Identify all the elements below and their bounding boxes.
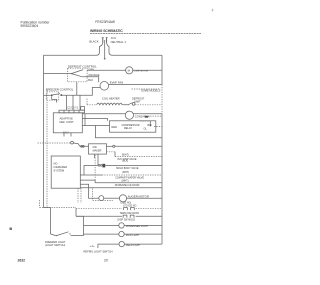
- NO ICEMAKER box: [51, 156, 80, 188]
- svg-text:WIRING SCHEMATIC: WIRING SCHEMATIC: [90, 29, 123, 33]
- svg-text:ICEMAKER: ICEMAKER: [54, 165, 68, 169]
- svg-text:(WHT): (WHT): [122, 171, 129, 174]
- left bus lower jog: [44, 208, 51, 234]
- svg-text:NEUTRAL 1: NEUTRAL 1: [111, 40, 127, 44]
- svg-text:REFRIG LIGHT SWITCH: REFRIG LIGHT SWITCH: [84, 249, 113, 253]
- wire neutral to right bus: [107, 43, 162, 56]
- wire plug ground stem: [104, 40, 106, 58]
- svg-text:FREEZER CONTROL: FREEZER CONTROL: [46, 87, 74, 91]
- ADC right pins: [82, 113, 85, 115]
- svg-text:EVAP. FAN: EVAP. FAN: [110, 81, 123, 85]
- dashed icemaker enclosure left edge: [46, 90, 48, 208]
- wire dispenser rung 2: [76, 215, 122, 217]
- svg-text:LIMIT: LIMIT: [134, 99, 141, 103]
- defrost control box (dashed): [68, 68, 88, 82]
- wire defrost to ADC: [72, 95, 74, 110]
- wire evap link to ADC: [79, 95, 81, 110]
- water valve connector: [98, 165, 100, 167]
- right bus: [161, 55, 163, 84]
- freezer light: [119, 231, 124, 236]
- left bus: [43, 55, 45, 207]
- icemaker box bottom pins: [94, 154, 96, 158]
- svg-text:20: 20: [104, 258, 108, 262]
- wire freezer control to ADC: [66, 95, 68, 110]
- wire dashed dispenser rung: [76, 207, 122, 209]
- svg-text:AUGER MOTOR: AUGER MOTOR: [128, 194, 149, 198]
- svg-text:LTD ICE NO: LTD ICE NO: [123, 204, 136, 207]
- svg-text:COIL HEATER: COIL HEATER: [102, 96, 120, 100]
- connector on icemaker feed: [71, 141, 74, 144]
- wire dashed left of heater: [87, 104, 97, 106]
- wire evap fan rung to bus: [109, 83, 162, 85]
- svg-text:BLK: BLK: [88, 78, 93, 82]
- water valve solenoid: [103, 164, 106, 168]
- connector pin stack: [81, 107, 85, 111]
- svg-text:BLACK: BLACK: [89, 40, 98, 44]
- wire dashed run capacitor: [143, 115, 162, 117]
- compressor motor M1: [126, 67, 133, 74]
- wire valve rung 3: [80, 180, 95, 183]
- freezer light switch: [56, 235, 57, 236]
- wire icemaker to bus: [107, 145, 113, 147]
- freezer control box (dashed): [47, 92, 59, 100]
- svg-text:RED: RED: [112, 125, 118, 129]
- auger motor: [119, 195, 126, 202]
- wire refrig light rung: [98, 243, 119, 245]
- wire valve rung 1: [84, 164, 98, 166]
- svg-text:(WHT): (WHT): [122, 153, 129, 156]
- wire relay return to bus: [96, 126, 163, 138]
- ice maker box: [89, 144, 107, 154]
- heading rule: [90, 32, 201, 34]
- svg-text:2632: 2632: [18, 259, 26, 263]
- wire freezer light rung: [84, 233, 119, 235]
- ADC box: [53, 113, 82, 133]
- svg-text:(BLK): (BLK): [122, 160, 128, 163]
- wire cond fan rung: [85, 113, 125, 115]
- svg-text:FRS23R4AW: FRS23R4AW: [95, 20, 116, 24]
- wire row D from box: [80, 187, 162, 189]
- svg-text:SOME MODELS: SOME MODELS: [141, 88, 161, 92]
- svg-text:TERM ICE DOOR: TERM ICE DOOR: [120, 212, 140, 215]
- dashed auger enclosure: [92, 189, 94, 201]
- svg-text:MAKER: MAKER: [93, 149, 102, 152]
- wire black to left bus: [44, 43, 103, 56]
- wire dashed below icemaker: [107, 151, 116, 153]
- wire freezer control to evap fan: [62, 88, 100, 96]
- svg-text:(WHT): (WHT): [122, 180, 129, 183]
- svg-text:REFR LIGHT: REFR LIGHT: [126, 244, 141, 247]
- wire dashed relay to bus: [155, 126, 156, 127]
- svg-text:DISP SW MOLD: DISP SW MOLD: [118, 218, 136, 221]
- wire valve rung 2: [80, 174, 102, 176]
- svg-text:5995223604: 5995223604: [21, 24, 39, 28]
- svg-text:COMPART WATER VALVE: COMPART WATER VALVE: [115, 176, 144, 179]
- wire bus to defrost control: [44, 73, 72, 75]
- evap fan motor: [100, 82, 109, 91]
- svg-text:MOLD BODY VALVE: MOLD BODY VALVE: [116, 167, 139, 170]
- wire orange contact to evap fan: [83, 77, 98, 83]
- wire dashed icemaker feed: [38, 142, 71, 144]
- left vertical to lights: [75, 208, 77, 216]
- wire defrost common to ADC: [76, 82, 78, 96]
- wire auger rung: [93, 197, 99, 199]
- left edge speck: [10, 228, 13, 231]
- defrost limit thermostat: [122, 103, 132, 105]
- dashed harness verticals: [94, 155, 96, 180]
- svg-text:(LIGHT SWITCH): (LIGHT SWITCH): [45, 243, 65, 247]
- freezer control thermostat: [44, 94, 51, 96]
- svg-text:SYSTEM: SYSTEM: [54, 169, 65, 173]
- top right speck: [212, 9, 213, 12]
- condenser fan motor: [125, 111, 133, 119]
- svg-text:DISPENSER LIGHT: DISPENSER LIGHT: [126, 225, 149, 228]
- wire row C from box: [80, 184, 92, 198]
- svg-text:NO: NO: [54, 162, 58, 166]
- dispenser connector: [99, 196, 104, 201]
- compressor relay/overload box: [110, 121, 156, 132]
- wire rung 4: [95, 182, 162, 184]
- wire light switch vertical: [97, 244, 99, 248]
- wire dashed some-models rung: [132, 88, 161, 90]
- svg-text:RELAY: RELAY: [124, 127, 132, 130]
- plug P1: [102, 38, 108, 43]
- dashed verticals below no-icemaker box: [77, 188, 79, 203]
- svg-text:DEF. CONT.: DEF. CONT.: [60, 120, 75, 124]
- svg-text:MOD LIGHT: MOD LIGHT: [126, 234, 140, 237]
- dispenser switch 1: [124, 208, 128, 211]
- wire ADC to relay top: [85, 119, 108, 121]
- wire compressor rung: [87, 69, 126, 71]
- svg-text:ORN: ORN: [88, 68, 94, 72]
- dispenser light: [119, 223, 124, 228]
- refrigerator light: [119, 241, 124, 246]
- svg-text:+1+: +1+: [90, 244, 95, 248]
- svg-text:COMP. MOTOR: COMP. MOTOR: [134, 71, 149, 73]
- svg-text:ADAPTIVE: ADAPTIVE: [60, 117, 73, 121]
- svg-text:BLK: BLK: [148, 124, 153, 127]
- wire dashed limit to bus: [135, 104, 162, 106]
- svg-text:DISPENSE ICE DOOR: DISPENSE ICE DOOR: [115, 184, 140, 187]
- wire to relay box: [85, 125, 110, 127]
- dashed enclosure bottom: [40, 207, 77, 209]
- defrost heater element: [97, 103, 123, 105]
- wire dispenser light rung: [84, 224, 119, 226]
- defrost switch: [71, 69, 84, 77]
